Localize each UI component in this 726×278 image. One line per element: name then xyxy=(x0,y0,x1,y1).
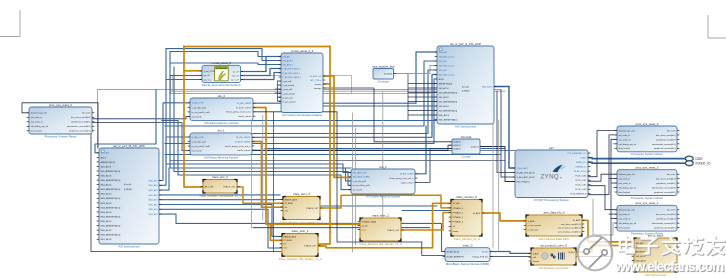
svg-text:S73_AXI_LITE: S73_AXI_LITE xyxy=(353,171,367,174)
svg-text:dm_0: dm_0 xyxy=(218,94,226,98)
svg-text:s_axi_lite_aclk: s_axi_lite_aclk xyxy=(192,106,207,109)
svg-text:S00_AXI: S00_AXI xyxy=(439,51,448,54)
wire: branch down to T2 xyxy=(270,224,282,240)
svg-text:M06_AXI: M06_AXI xyxy=(149,208,158,211)
IP ps7 (ZYNQ7 Processing System) xyxy=(515,146,588,202)
wire: dark mid clock lines xyxy=(252,150,515,152)
svg-text:slowest_sync_clk: slowest_sync_clk xyxy=(619,129,636,132)
svg-text:s_axis_aresetn: s_axis_aresetn xyxy=(528,224,541,227)
svg-text:S_AXI_LITE: S_AXI_LITE xyxy=(192,136,205,139)
svg-text:in_r_P: in_r_P xyxy=(233,70,240,73)
svg-text:axi_resetn: axi_resetn xyxy=(192,150,203,153)
wire: dark into mdm aresetn xyxy=(422,242,445,256)
svg-text:clk: clk xyxy=(453,226,455,228)
svg-text:peripheral_aresetn[0:0]: peripheral_aresetn[0:0] xyxy=(654,147,676,150)
svg-text:dcm_locked: dcm_locked xyxy=(619,192,631,194)
wire: blue net bundle left verticals xyxy=(95,90,156,153)
svg-text:Debug_SYS_Rst: Debug_SYS_Rst xyxy=(473,255,489,258)
svg-text:mb_reset: mb_reset xyxy=(667,129,676,132)
svg-text:M07_ACLK: M07_ACLK xyxy=(101,238,113,241)
watermark chinese text 电子发烧友 xyxy=(620,237,635,253)
svg-text:Mmult_accel (Pre-Production): Mmult_accel (Pre-Production) xyxy=(202,83,240,87)
svg-text:s_axis_aclk: s_axis_aclk xyxy=(283,89,293,91)
svg-text:axis_data_fifo_0: axis_data_fifo_0 xyxy=(543,210,564,214)
svg-text:s_axi_lite_aclk: s_axi_lite_aclk xyxy=(192,140,207,143)
wire: dm_2 out up to ACP xyxy=(415,126,426,174)
IP mdm_0 (MicroBlaze Debug Module) xyxy=(445,244,490,266)
svg-text:rst_n: rst_n xyxy=(362,228,366,231)
HLS icon xyxy=(215,67,229,81)
svg-text:S73_AXI: S73_AXI xyxy=(283,55,291,58)
svg-text:s2mm_introut: s2mm_introut xyxy=(401,181,414,184)
wire: mdm M_AXI to pconv xyxy=(490,252,531,254)
svg-text:dm_2: dm_2 xyxy=(379,165,387,169)
svg-text:m_axi_mm2s_aclk: m_axi_mm2s_aclk xyxy=(192,112,211,114)
svg-text:www.elecfans.com: www.elecfans.com xyxy=(614,259,724,274)
IP dm_2 (AXI Direct Memory Access) xyxy=(351,165,415,199)
IP axis_acache_fwd (Constant) xyxy=(372,64,395,83)
IP proc_sys_reset_2 (Processor System Reset) xyxy=(29,103,92,139)
svg-text:PADDR_AXIS: PADDR_AXIS xyxy=(284,235,297,238)
svg-text:M05_AXI: M05_AXI xyxy=(149,203,158,206)
svg-text:proc_sys_reset_3: proc_sys_reset_3 xyxy=(636,166,659,170)
svg-text:trace_acc_0: trace_acc_0 xyxy=(212,175,228,179)
svg-text:AXI Stream Accelerator Adapter: AXI Stream Accelerator Adapter xyxy=(282,113,323,117)
hierarchy frame corner top-left xyxy=(0,10,20,37)
svg-text:FCLK_CLK3: FCLK_CLK3 xyxy=(576,189,587,191)
svg-text:M05_ACLK: M05_ACLK xyxy=(101,220,113,223)
svg-text:trace_strm_1: trace_strm_1 xyxy=(292,229,309,233)
svg-text:M_AXIS_0:0: M_AXIS_0:0 xyxy=(310,75,322,78)
IP proc_sys_reset_3 (Processor System Reset) xyxy=(617,166,677,200)
svg-text:interconnect_aresetn[0:0]: interconnect_aresetn[0:0] xyxy=(652,186,676,189)
svg-text:trace_strm_0: trace_strm_0 xyxy=(293,192,310,196)
svg-text:trace_strm_2: trace_strm_2 xyxy=(372,213,389,217)
svg-text:peripheral_reset[0:0]: peripheral_reset[0:0] xyxy=(656,138,675,141)
wire: T1 out xyxy=(320,195,451,208)
svg-text:FCLK_RESET0_N: FCLK_RESET0_N xyxy=(570,194,587,196)
wire: gp0 M_AXI outs xyxy=(159,103,190,181)
svg-text:ext_reset_in: ext_reset_in xyxy=(619,134,631,137)
wire: blue feeds to mmult clk pins xyxy=(170,75,202,77)
svg-text:bus_struct_reset[0:0]: bus_struct_reset[0:0] xyxy=(656,178,676,181)
svg-text:[0x=x]4: [0x=x]4 xyxy=(124,184,132,186)
svg-text:AXI Direct Memory Access: AXI Direct Memory Access xyxy=(204,155,239,159)
svg-text:AXI Interconnect: AXI Interconnect xyxy=(455,124,477,128)
svg-text:mb_reset: mb_reset xyxy=(667,209,676,212)
svg-text:In0[0:0]: In0[0:0] xyxy=(454,142,461,144)
svg-text:S00_ACLK: S00_ACLK xyxy=(101,165,112,168)
IP proc_sys_reset_1 (Processor System Reset) xyxy=(617,201,677,235)
svg-text:M_AXI_GP0:p: M_AXI_GP0:p xyxy=(574,170,586,173)
svg-text:dout[3:0]: dout[3:0] xyxy=(384,72,393,75)
svg-text:FCLK_CLK0: FCLK_CLK0 xyxy=(576,176,587,178)
svg-text:S01_ACLK: S01_ACLK xyxy=(439,96,450,99)
svg-text:AXI Direct Memory Access: AXI Direct Memory Access xyxy=(366,194,401,198)
IP axi_ic_ps7_M_AXI_GP0 (AXI Interconnect) xyxy=(99,144,159,249)
svg-text:aux_reset_in: aux_reset_in xyxy=(619,138,632,141)
svg-text:P1_AXIS: P1_AXIS xyxy=(285,202,294,205)
svg-text:M_AXI: M_AXI xyxy=(482,250,489,253)
wire: psr2 clk feed from top xyxy=(22,103,98,113)
svg-text:aux_reset_in: aux_reset_in xyxy=(619,182,632,185)
svg-text:IRQ_F2P[2:0]: IRQ_F2P[2:0] xyxy=(517,181,530,183)
svg-text:PTRACE_2: PTRACE_2 xyxy=(453,216,464,219)
svg-text:PTRACE_1: PTRACE_1 xyxy=(453,211,464,214)
svg-text:Constant: Constant xyxy=(377,79,389,83)
svg-text:ACLK: ACLK xyxy=(439,78,445,81)
IP proc_sys_reset_0 (Processor System Reset) xyxy=(617,122,677,156)
svg-text:axi_resetn: axi_resetn xyxy=(192,115,203,118)
wire: dm_1 M_AXIS down to T1 xyxy=(252,142,283,208)
svg-text:S73_AXIS_0: S73_AXIS_0 xyxy=(283,60,294,63)
IP trace_acc_0 (Trace Monitor Accelerator) xyxy=(199,175,242,198)
wire: concat inputs (interrupt nets) xyxy=(323,88,452,142)
wire: if-block outs xyxy=(323,76,351,177)
watermark url xyxy=(614,259,725,275)
svg-text:S_AXI_LITE: S_AXI_LITE xyxy=(192,102,205,105)
svg-text:axi_resetn: axi_resetn xyxy=(353,189,363,192)
svg-text:AXI4-Stream Data FIFO: AXI4-Stream Data FIFO xyxy=(539,237,571,241)
wire: blue horiz top feeds to if-block xyxy=(166,49,281,61)
svg-text:interconnect_aresetn[0:0]: interconnect_aresetn[0:0] xyxy=(67,125,91,128)
IP dm_1 (AXI Direct Memory Access) xyxy=(190,129,252,160)
svg-text:m_axi_mm2s_aclk: m_axi_mm2s_aclk xyxy=(192,146,211,148)
svg-text:PTP_ETHERNET_0:0: PTP_ETHERNET_0:0 xyxy=(567,153,586,155)
svg-text:trace_monitor_0: trace_monitor_0 xyxy=(456,195,477,199)
svg-text:M00_ACLK: M00_ACLK xyxy=(439,114,450,117)
svg-text:S00_ACLK: S00_ACLK xyxy=(636,255,647,258)
svg-text:S73_AXIS_S2MM: S73_AXIS_S2MM xyxy=(353,176,370,179)
wire: blue to T4/mdm area xyxy=(321,205,437,207)
svg-text:s2mm_prmry_reset_out_n: s2mm_prmry_reset_out_n xyxy=(389,177,414,180)
svg-text:S00_AXI: S00_AXI xyxy=(636,242,644,245)
svg-text:M_AXI: M_AXI xyxy=(568,251,574,254)
svg-text:s_axi_CTRL: s_axi_CTRL xyxy=(204,71,216,73)
wire: T2 out long bottom xyxy=(318,203,451,248)
svg-text:mb_debug_sys_rst: mb_debug_sys_rst xyxy=(619,186,637,189)
svg-text:ACLK: ACLK xyxy=(101,156,107,159)
svg-text:M_AXI_ACLK: M_AXI_ACLK xyxy=(447,250,460,253)
svg-text:In2[0:0]: In2[0:0] xyxy=(454,149,461,151)
svg-text:TRACE_OUT: TRACE_OUT xyxy=(223,185,236,188)
svg-text:axis_rd_data_count[31:0]: axis_rd_data_count[31:0] xyxy=(558,230,581,233)
svg-text:ZYNQ: ZYNQ xyxy=(541,173,559,180)
wire: ACP M00_AXI to ps7 S_AXI_ACP xyxy=(494,87,515,169)
svg-text:mm2s_prmry_reset_out_n: mm2s_prmry_reset_out_n xyxy=(226,111,252,114)
svg-text:M_AXIS: M_AXIS xyxy=(473,212,481,215)
svg-text:SP_AXI: SP_AXI xyxy=(453,202,460,205)
svg-text:peripheral_reset[0:0]: peripheral_reset[0:0] xyxy=(656,218,675,221)
dark feed bundle into if-block clk/reset pins xyxy=(277,81,279,101)
dark fan into ACP lower pins xyxy=(407,74,409,120)
svg-text:slowest_sync_clk: slowest_sync_clk xyxy=(31,112,48,115)
svg-text:Trace_Monitor_AXI_stream_v1_0: Trace_Monitor_AXI_stream_v1_0 xyxy=(278,257,322,261)
svg-text:P_AP_FIFO_IARG_1: P_AP_FIFO_IARG_1 xyxy=(283,72,301,75)
svg-text:S02_AXI: S02_AXI xyxy=(439,69,448,72)
svg-text:Processor System Reset: Processor System Reset xyxy=(631,196,663,200)
wire: dm_0 M_AXIS down to ddr trace xyxy=(253,108,360,225)
wire: psr2 aresetn down-around long bottom xyxy=(91,131,281,252)
wire: T4 out to fifo xyxy=(482,213,526,221)
svg-text:M03_AXI: M03_AXI xyxy=(149,194,158,197)
svg-text:rstn: rstn xyxy=(284,246,287,249)
svg-text:s_axis_aclk: s_axis_aclk xyxy=(528,230,538,232)
svg-text:M_AXIS_MM2S: M_AXIS_MM2S xyxy=(235,141,251,144)
hierarchy box around mmult xyxy=(171,76,352,94)
svg-text:S02_ARESETN[0:0]: S02_ARESETN[0:0] xyxy=(439,109,458,112)
svg-text:Trace_Monitor_v1_0: Trace_Monitor_v1_0 xyxy=(453,237,480,241)
svg-text:M_AXIS_MM2S: M_AXIS_MM2S xyxy=(236,106,252,109)
svg-text:M02_ACLK: M02_ACLK xyxy=(101,193,113,196)
svg-text:M_AXI_GP0_ACLK: M_AXI_GP0_ACLK xyxy=(517,171,536,174)
wire: gray pair under mmult xyxy=(171,93,431,95)
svg-text:mdm_0: mdm_0 xyxy=(463,244,473,248)
svg-text:xlconcat: xlconcat xyxy=(461,135,472,139)
svg-text:AXI Protocol Converter: AXI Protocol Converter xyxy=(539,266,569,270)
svg-text:Processor System Reset: Processor System Reset xyxy=(631,152,663,156)
svg-text:axi_protocol_conv_0: axi_protocol_conv_0 xyxy=(540,243,567,247)
svg-text:aux_reset_in: aux_reset_in xyxy=(31,121,44,124)
svg-text:M04_ACLK: M04_ACLK xyxy=(101,211,113,214)
svg-text:aresetn: aresetn xyxy=(533,260,540,263)
svg-text:aclk: aclk xyxy=(533,257,537,259)
svg-text:[I:M0]83: [I:M0]83 xyxy=(124,189,133,191)
svg-text:peripheral_reset[0:0]: peripheral_reset[0:0] xyxy=(71,121,90,124)
svg-text:ARESETN[0:0]: ARESETN[0:0] xyxy=(101,161,116,164)
port FIXED_IO xyxy=(685,161,711,166)
svg-text:DDR:0: DDR:0 xyxy=(581,157,587,159)
svg-text:P_AP_FIFO_OARG_0: P_AP_FIFO_OARG_0 xyxy=(283,76,301,79)
svg-text:PTRACE_DATA: PTRACE_DATA xyxy=(362,220,377,223)
svg-text:P1_AXIS: P1_AXIS xyxy=(284,239,293,242)
wire: fifo out to BR xyxy=(582,220,634,242)
svg-text:out_r_P: out_r_P xyxy=(232,74,240,77)
svg-text:mm2s_introut: mm2s_introut xyxy=(238,115,252,118)
svg-text:PTRACE_3: PTRACE_3 xyxy=(453,221,464,224)
svg-text:M_AXI_ARESETN: M_AXI_ARESETN xyxy=(447,255,465,258)
svg-text:ap_clk: ap_clk xyxy=(204,75,211,77)
svg-text:dcm_locked: dcm_locked xyxy=(619,148,631,150)
svg-text:M05_ARESETN[0:0]: M05_ARESETN[0:0] xyxy=(101,225,121,228)
svg-text:ARESETN[0:0]: ARESETN[0:0] xyxy=(439,82,453,85)
svg-text:M02_ARESETN[0:0]: M02_ARESETN[0:0] xyxy=(101,197,121,200)
svg-text:AXI Direct Memory Access: AXI Direct Memory Access xyxy=(204,121,239,125)
svg-text:M00_ARESETN[0:0]: M00_ARESETN[0:0] xyxy=(101,179,121,182)
IP axi_protocol_conv_0 (AXI Protocol Converter) xyxy=(531,243,576,269)
svg-text:out_C_P: out_C_P xyxy=(231,78,240,81)
svg-text:peripheral_aresetn[0:0]: peripheral_aresetn[0:0] xyxy=(654,191,676,194)
wire: T0 out to T1 xyxy=(237,187,283,203)
svg-text:M02_AXI: M02_AXI xyxy=(149,189,158,192)
IP trace_strm_0 (Trace Monitor AXI stream) xyxy=(280,192,324,224)
svg-text:S02_AXI_acache: S02_AXI_acache xyxy=(439,73,456,76)
svg-text:M_AXI_S2MM: M_AXI_S2MM xyxy=(400,173,414,176)
svg-text:M04_ARESETN[0:0]: M04_ARESETN[0:0] xyxy=(101,215,121,218)
svg-text:TRACE_OUT: TRACE_OUT xyxy=(387,229,400,232)
svg-text:ext_reset_in: ext_reset_in xyxy=(31,116,43,119)
svg-text:axis_data_count[31:0]: axis_data_count[31:0] xyxy=(561,223,581,226)
svg-text:S00_ARESETN[0:0]: S00_ARESETN[0:0] xyxy=(439,91,458,94)
svg-text:aresetn: aresetn xyxy=(315,83,322,86)
IP xlconcat (Concat) xyxy=(452,135,480,159)
svg-text:S_AXIS: S_AXIS xyxy=(528,220,536,223)
port DDR xyxy=(685,156,703,161)
svg-text:slowest_sync_clk: slowest_sync_clk xyxy=(619,209,636,212)
svg-text:mb_debug_sys_rst: mb_debug_sys_rst xyxy=(619,143,637,146)
svg-text:DDR: DDR xyxy=(696,157,704,161)
svg-text:M06_ARESETN[0:0]: M06_ARESETN[0:0] xyxy=(101,234,121,237)
svg-text:M03_ARESETN[0:0]: M03_ARESETN[0:0] xyxy=(101,206,121,209)
wire: mmult outputs to if-block xyxy=(241,57,281,72)
svg-text:bus_struct_reset[0:0]: bus_struct_reset[0:0] xyxy=(656,213,676,216)
IP trace_strm_1 (Trace Monitor AXI stream) xyxy=(278,229,322,261)
svg-text:AP_CTRL: AP_CTRL xyxy=(205,185,215,188)
svg-text:m_axis_aresetn: m_axis_aresetn xyxy=(283,101,296,104)
svg-text:M00_ACLK: M00_ACLK xyxy=(101,174,113,177)
svg-text:peripheral_aresetn[0:0]: peripheral_aresetn[0:0] xyxy=(654,227,676,230)
wire: fclk nets to resets xyxy=(588,131,617,177)
svg-text:aux_reset_in: aux_reset_in xyxy=(619,218,632,221)
svg-text:MicroBlaze Debug Module (MDM): MicroBlaze Debug Module (MDM) xyxy=(446,262,490,266)
svg-text:M04_AXI: M04_AXI xyxy=(149,199,158,202)
svg-text:S_AXI: S_AXI xyxy=(533,252,539,255)
svg-text:P_AP_FIFO_IARG_0: P_AP_FIFO_IARG_0 xyxy=(283,68,301,71)
svg-text:[0x=x]4: [0x=x]4 xyxy=(462,87,470,89)
svg-text:rstn: rstn xyxy=(285,210,288,213)
svg-text:AXI Interconnect: AXI Interconnect xyxy=(118,244,140,248)
svg-text:ap_clk: ap_clk xyxy=(362,225,368,227)
svg-text:interconnect_aresetn[0:0]: interconnect_aresetn[0:0] xyxy=(652,143,676,146)
svg-text:clk: clk xyxy=(284,244,286,246)
svg-text:Trace_Monitor_Accelerator_v1_0: Trace_Monitor_Accelerator_v1_0 xyxy=(199,194,242,198)
svg-text:dcm_locked: dcm_locked xyxy=(31,131,43,133)
svg-text:PTRACE_0: PTRACE_0 xyxy=(453,207,464,210)
svg-text:mmult_accel_0_if: mmult_accel_0_if xyxy=(291,49,314,53)
IP axi_ic_trace (AXI Interconnect) xyxy=(634,233,677,276)
wire: T3 out xyxy=(401,213,451,231)
svg-text:mmult_accel_0: mmult_accel_0 xyxy=(212,61,232,65)
ZYNQ logo xyxy=(541,165,567,181)
wire: gray aresetn verticals right xyxy=(492,120,494,248)
svg-text:peripheral_reset[0:0]: peripheral_reset[0:0] xyxy=(656,182,675,185)
watermark logo circle xyxy=(578,236,613,271)
svg-text:S00_ACLK: S00_ACLK xyxy=(439,87,450,90)
wire: middle blue band xyxy=(253,52,437,103)
svg-text:ZYNQ7 Processing System: ZYNQ7 Processing System xyxy=(534,198,570,202)
svg-text:mm2s_introut: mm2s_introut xyxy=(237,149,251,152)
wire: long clk pair across middle xyxy=(98,89,501,91)
svg-text:S01_ARESETN[0:0]: S01_ARESETN[0:0] xyxy=(439,100,458,103)
svg-text:M07_AXI: M07_AXI xyxy=(149,213,158,216)
svg-text:mb_debug_sys_rst: mb_debug_sys_rst xyxy=(31,125,49,128)
svg-text:USBIND_0:0: USBIND_0:0 xyxy=(575,166,586,168)
svg-text:mb_reset: mb_reset xyxy=(82,112,91,115)
wire: DDR net xyxy=(588,157,686,160)
svg-text:TRACE_OUT: TRACE_OUT xyxy=(304,245,317,248)
svg-text:ext_reset_in: ext_reset_in xyxy=(619,213,631,216)
svg-text:M01_AXI: M01_AXI xyxy=(149,184,158,187)
hierarchy frame corner top-right xyxy=(708,15,726,38)
svg-text:TRACE_OUT: TRACE_OUT xyxy=(306,207,319,210)
svg-text:M03_ACLK: M03_ACLK xyxy=(101,202,113,205)
svg-text:ap_rst_n: ap_rst_n xyxy=(204,78,213,81)
svg-text:s_axi_aresetn: s_axi_aresetn xyxy=(283,84,295,87)
svg-text:Processor System Reset: Processor System Reset xyxy=(45,134,77,138)
wire: gray vertical near dm column xyxy=(262,115,264,220)
svg-text:mb_debug_sys_rst: mb_debug_sys_rst xyxy=(619,222,637,225)
svg-text:bus_struct_reset[0:0]: bus_struct_reset[0:0] xyxy=(71,116,91,119)
protocol converter icon xyxy=(542,253,565,260)
svg-text:mm2s_prmry_reset_out_n: mm2s_prmry_reset_out_n xyxy=(225,145,251,148)
svg-text:Trace_Monitor_AXI_stream_v1_0: Trace_Monitor_AXI_stream_v1_0 xyxy=(280,220,324,224)
svg-text:axi_ic_ps7_S_AXI_ACP: axi_ic_ps7_S_AXI_ACP xyxy=(450,42,481,46)
svg-text:S02_ACLK: S02_ACLK xyxy=(439,105,450,108)
svg-text:axi_ic_ps7_M_AXI_GP0: axi_ic_ps7_M_AXI_GP0 xyxy=(113,144,145,148)
svg-text:M00_AXI: M00_AXI xyxy=(149,179,158,182)
svg-text:proc_sys_reset_2: proc_sys_reset_2 xyxy=(49,103,72,107)
svg-text:m_axis_aclk: m_axis_aclk xyxy=(283,97,293,99)
svg-text:In1[0:0]: In1[0:0] xyxy=(454,145,461,147)
svg-text:axis_acache_fwd: axis_acache_fwd xyxy=(372,64,395,68)
svg-text:FIXED_IO: FIXED_IO xyxy=(696,161,711,165)
svg-text:s_axi_lite_aclk: s_axi_lite_aclk xyxy=(353,180,367,183)
svg-text:M01_ARESETN[0:0]: M01_ARESETN[0:0] xyxy=(101,188,121,191)
svg-text:M_AXIS: M_AXIS xyxy=(573,219,581,222)
svg-text:AP_CTRL:p: AP_CTRL:p xyxy=(310,79,322,82)
IP axis_data_fifo_0 (AXI4-Stream Data FIFO) xyxy=(526,210,582,240)
svg-text:interconnect_aresetn[0:0]: interconnect_aresetn[0:0] xyxy=(652,222,676,225)
svg-text:s_axi_aclk: s_axi_aclk xyxy=(283,81,292,83)
svg-text:Concat: Concat xyxy=(461,154,470,158)
svg-text:S00_ARESETN[0:0]: S00_ARESETN[0:0] xyxy=(101,170,121,173)
svg-text:M_AXI_MM2S: M_AXI_MM2S xyxy=(236,136,251,139)
svg-text:slowest_sync_clk: slowest_sync_clk xyxy=(619,173,636,176)
wire: FIXED_IO net xyxy=(588,162,686,163)
svg-text:FCLK_CLK2: FCLK_CLK2 xyxy=(576,185,587,187)
IP dm_0 (AXI Direct Memory Access) xyxy=(190,94,253,125)
IP mmult_accel_0 (Mmult_accel HLS) xyxy=(202,61,241,87)
svg-text:dm_1: dm_1 xyxy=(217,129,225,133)
wire: ps7 clk pins left xyxy=(497,172,515,174)
svg-text:S00_AXI_acache: S00_AXI_acache xyxy=(439,55,456,58)
wire: psr2 resets to dm axi_resetn xyxy=(92,116,190,118)
IP axi_ic_ps7_S_AXI_ACP (AXI Interconnect) xyxy=(437,42,494,129)
svg-text:axis_wr_data_count[31:0]: axis_wr_data_count[31:0] xyxy=(558,227,581,230)
svg-text:S01_AXI_acache: S01_AXI_acache xyxy=(439,64,456,67)
svg-text:S73_AXIS_1: S73_AXIS_1 xyxy=(283,64,294,67)
svg-text:S01_AXI: S01_AXI xyxy=(439,60,448,63)
svg-text:interrupt: interrupt xyxy=(314,87,322,90)
wire: constant dout to ACP acache pins xyxy=(393,66,437,74)
wire: concat dout to IRQ_F2P xyxy=(480,147,515,182)
svg-text:[I:M0]83: [I:M0]83 xyxy=(462,91,470,93)
svg-text:S_AXI_ACP_ACLK: S_AXI_ACP_ACLK xyxy=(517,176,536,179)
svg-text:M00_ARESETN[0:0]: M00_ARESETN[0:0] xyxy=(439,118,458,121)
svg-text:S_AXI_ACP: S_AXI_ACP xyxy=(517,167,529,170)
svg-text:dcm_locked: dcm_locked xyxy=(619,228,631,230)
wire: orange top loop xyxy=(184,46,330,48)
svg-text:M00_AXI:0: M00_AXI:0 xyxy=(482,85,493,88)
IP mmult_accel_0_if (AXI Stream Accelerator Adapter) xyxy=(281,49,323,117)
svg-text:M_AXI_MM2S: M_AXI_MM2S xyxy=(237,102,252,105)
svg-text:proc_sys_reset_1: proc_sys_reset_1 xyxy=(636,201,659,205)
svg-text:resetn: resetn xyxy=(453,230,459,233)
svg-text:FIXED_IO:0: FIXED_IO:0 xyxy=(576,162,586,164)
IP trace_monitor_0 (Trace Monitor) xyxy=(451,195,482,241)
svg-text:dout[2:0]: dout[2:0] xyxy=(471,145,479,148)
svg-text:FCLK_CLK1: FCLK_CLK1 xyxy=(576,180,587,182)
